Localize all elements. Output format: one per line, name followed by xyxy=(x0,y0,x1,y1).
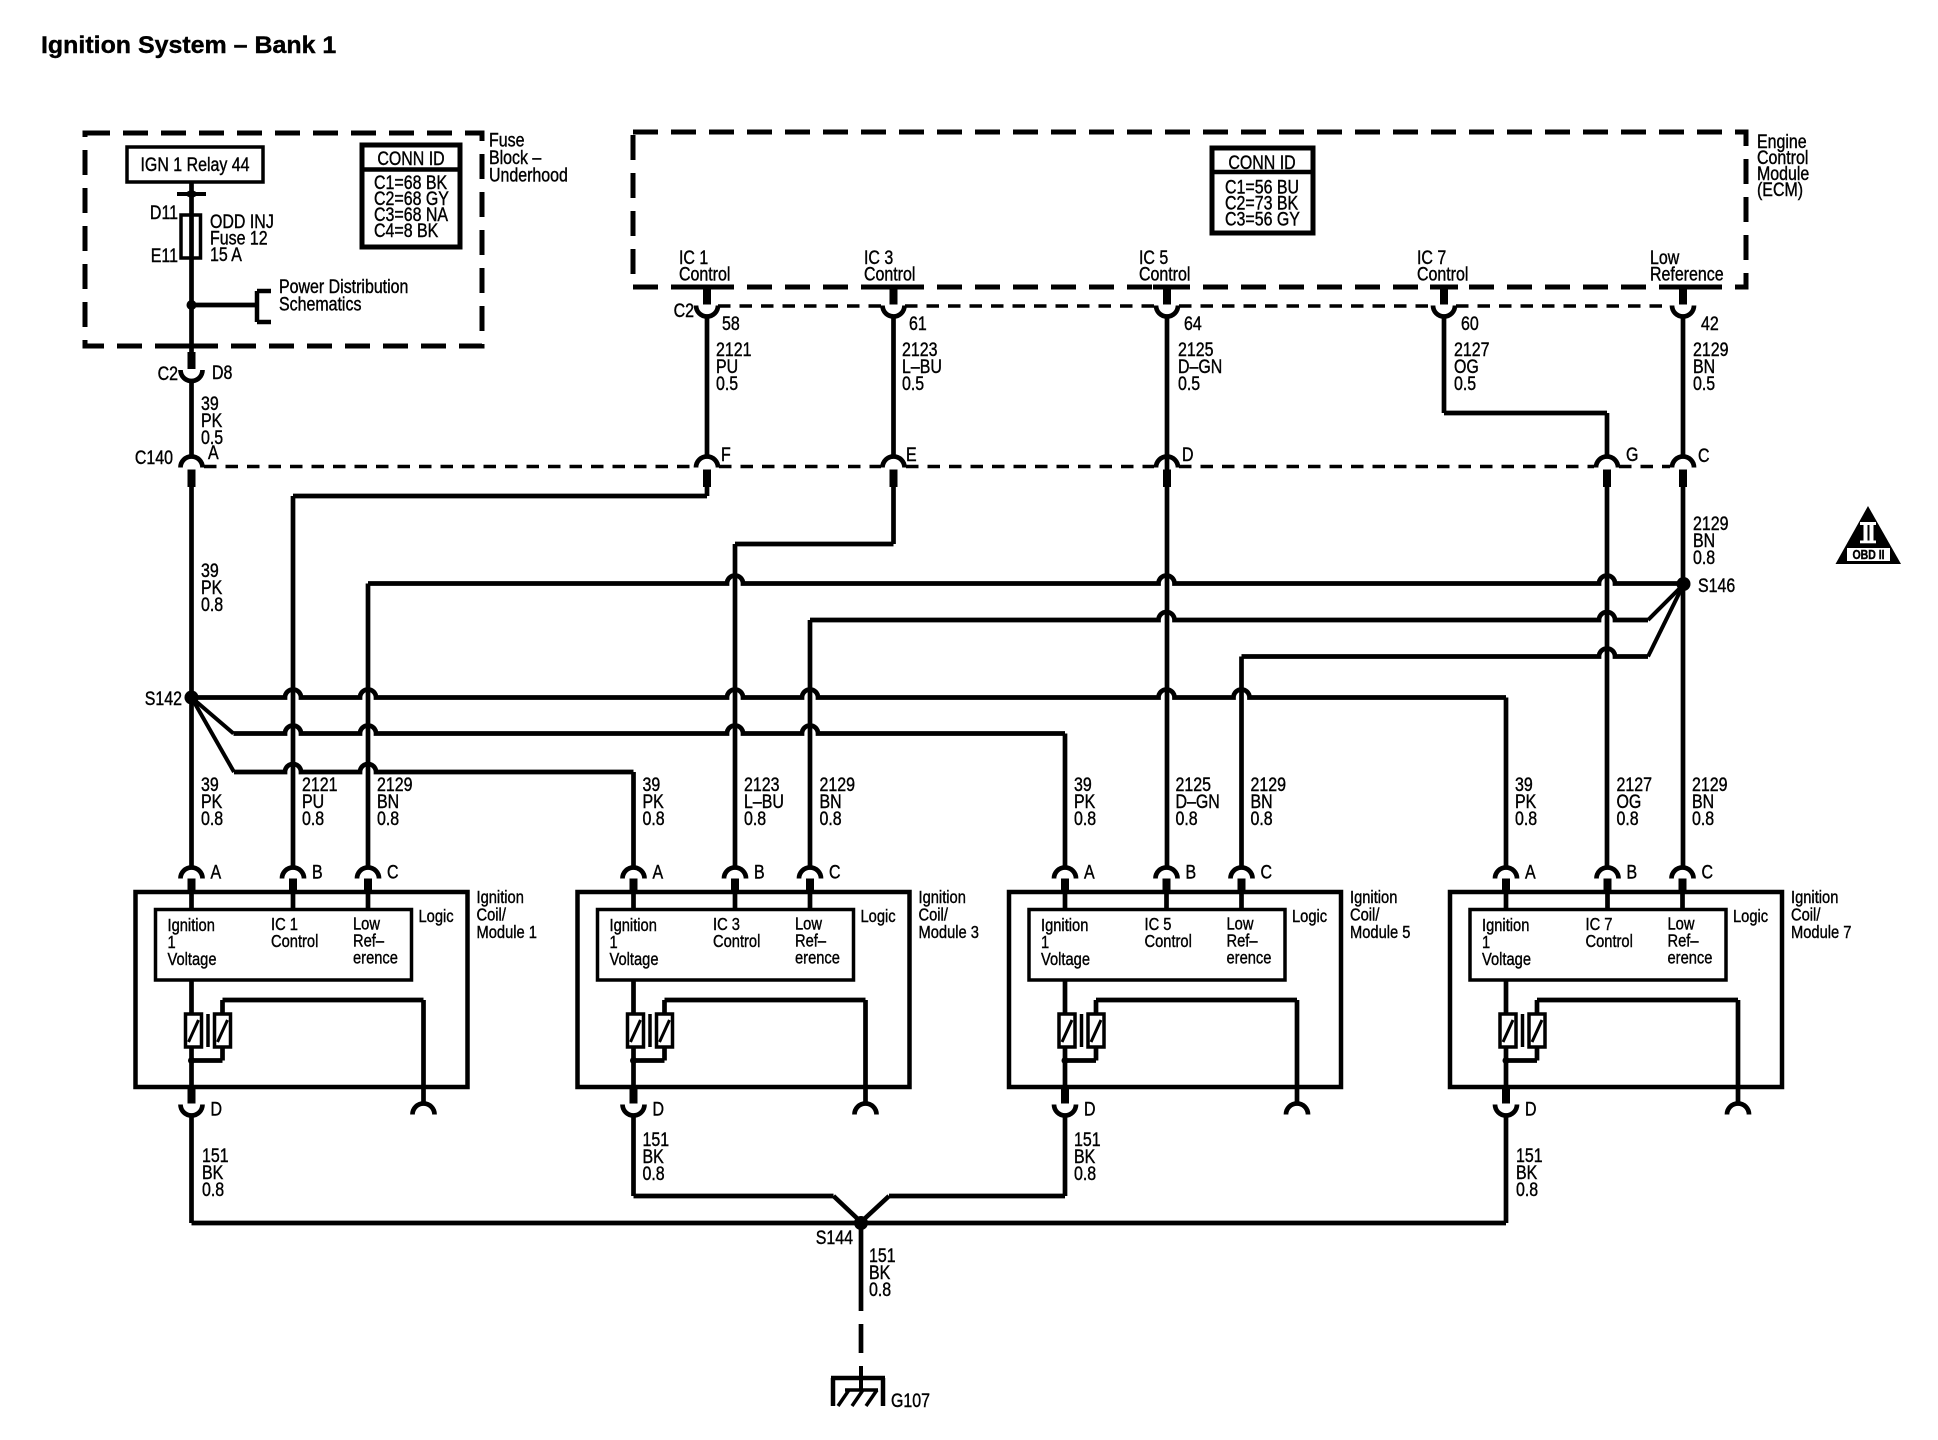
svg-text:0.8: 0.8 xyxy=(1074,808,1096,830)
svg-text:0.8: 0.8 xyxy=(869,1279,891,1301)
svg-text:C3=56 GY: C3=56 GY xyxy=(1225,208,1300,230)
svg-text:C: C xyxy=(829,861,841,883)
svg-text:A: A xyxy=(211,861,222,883)
svg-text:D: D xyxy=(653,1098,665,1120)
svg-text:Voltage: Voltage xyxy=(1041,950,1090,969)
svg-text:B: B xyxy=(1186,861,1197,883)
svg-text:Underhood: Underhood xyxy=(489,164,568,186)
svg-text:Reference: Reference xyxy=(1650,263,1724,285)
svg-text:Voltage: Voltage xyxy=(1482,950,1531,969)
svg-text:Ignition System – Bank 1: Ignition System – Bank 1 xyxy=(41,32,336,58)
svg-text:0.8: 0.8 xyxy=(1176,808,1198,830)
svg-text:C: C xyxy=(1261,861,1273,883)
svg-text:D8: D8 xyxy=(212,362,232,384)
svg-text:0.5: 0.5 xyxy=(1454,373,1476,395)
svg-text:0.5: 0.5 xyxy=(902,373,924,395)
svg-text:Control: Control xyxy=(864,263,915,285)
svg-text:0.8: 0.8 xyxy=(201,808,223,830)
svg-text:58: 58 xyxy=(722,313,740,335)
svg-text:Schematics: Schematics xyxy=(279,293,362,315)
svg-text:60: 60 xyxy=(1461,313,1479,335)
svg-text:CONN ID: CONN ID xyxy=(1228,152,1295,174)
svg-text:G: G xyxy=(1626,444,1638,466)
svg-text:Control: Control xyxy=(1417,263,1468,285)
svg-text:Control: Control xyxy=(271,932,318,951)
svg-text:Control: Control xyxy=(1145,932,1192,951)
svg-text:S144: S144 xyxy=(816,1227,853,1249)
svg-text:G107: G107 xyxy=(891,1390,930,1412)
svg-text:0.8: 0.8 xyxy=(202,1179,224,1201)
svg-text:0.8: 0.8 xyxy=(1617,808,1639,830)
svg-text:0.8: 0.8 xyxy=(744,808,766,830)
svg-text:E11: E11 xyxy=(151,245,178,267)
svg-text:A: A xyxy=(1084,861,1095,883)
svg-text:F: F xyxy=(721,444,731,466)
svg-text:C: C xyxy=(387,861,399,883)
svg-text:Logic: Logic xyxy=(419,907,454,926)
svg-text:Module 3: Module 3 xyxy=(919,923,979,942)
svg-text:B: B xyxy=(312,861,323,883)
svg-text:0.8: 0.8 xyxy=(643,1163,665,1185)
svg-text:CONN ID: CONN ID xyxy=(377,148,444,170)
svg-text:61: 61 xyxy=(909,313,927,335)
svg-text:C: C xyxy=(1698,445,1710,467)
svg-text:A: A xyxy=(653,861,664,883)
svg-text:Logic: Logic xyxy=(1733,907,1768,926)
svg-text:C140: C140 xyxy=(135,447,173,469)
svg-text:0.5: 0.5 xyxy=(1178,373,1200,395)
svg-text:S146: S146 xyxy=(1698,575,1735,597)
svg-text:Module 7: Module 7 xyxy=(1791,923,1851,942)
svg-text:D: D xyxy=(1525,1098,1537,1120)
svg-text:0.5: 0.5 xyxy=(1693,373,1715,395)
svg-text:D: D xyxy=(211,1098,223,1120)
svg-text:S142: S142 xyxy=(145,688,182,710)
svg-text:D: D xyxy=(1084,1098,1096,1120)
svg-text:0.8: 0.8 xyxy=(1693,547,1715,569)
svg-text:Voltage: Voltage xyxy=(610,950,659,969)
svg-text:15 A: 15 A xyxy=(210,244,242,266)
svg-text:B: B xyxy=(754,861,765,883)
svg-text:B: B xyxy=(1627,861,1638,883)
svg-text:erence: erence xyxy=(353,948,398,967)
svg-text:E: E xyxy=(906,444,917,466)
svg-text:(ECM): (ECM) xyxy=(1757,179,1803,201)
svg-text:A: A xyxy=(1525,861,1536,883)
svg-text:0.8: 0.8 xyxy=(820,808,842,830)
svg-text:C2: C2 xyxy=(674,300,694,322)
svg-text:42: 42 xyxy=(1701,313,1719,335)
svg-text:Control: Control xyxy=(679,263,730,285)
svg-text:D: D xyxy=(1182,444,1194,466)
svg-text:Module 5: Module 5 xyxy=(1350,923,1410,942)
svg-text:0.8: 0.8 xyxy=(1515,808,1537,830)
svg-text:0.8: 0.8 xyxy=(1516,1179,1538,1201)
svg-text:Voltage: Voltage xyxy=(168,950,217,969)
svg-text:C2: C2 xyxy=(158,363,178,385)
svg-text:Logic: Logic xyxy=(861,907,896,926)
svg-text:0.8: 0.8 xyxy=(643,808,665,830)
svg-text:erence: erence xyxy=(1227,948,1272,967)
svg-text:erence: erence xyxy=(795,948,840,967)
svg-text:erence: erence xyxy=(1668,948,1713,967)
svg-text:Module 1: Module 1 xyxy=(477,923,537,942)
svg-text:OBD II: OBD II xyxy=(1852,549,1884,562)
svg-text:D11: D11 xyxy=(150,202,178,224)
svg-text:0.5: 0.5 xyxy=(716,373,738,395)
svg-text:Control: Control xyxy=(1586,932,1633,951)
svg-text:64: 64 xyxy=(1184,313,1202,335)
svg-text:0.8: 0.8 xyxy=(1074,1163,1096,1185)
svg-text:C4=8 BK: C4=8 BK xyxy=(374,220,439,242)
svg-text:IGN 1 Relay 44: IGN 1 Relay 44 xyxy=(140,154,249,176)
svg-text:Control: Control xyxy=(713,932,760,951)
svg-text:0.8: 0.8 xyxy=(1692,808,1714,830)
svg-text:0.8: 0.8 xyxy=(1251,808,1273,830)
svg-text:Logic: Logic xyxy=(1292,907,1327,926)
svg-text:Control: Control xyxy=(1139,263,1190,285)
svg-text:0.8: 0.8 xyxy=(377,808,399,830)
svg-text:0.8: 0.8 xyxy=(302,808,324,830)
svg-text:C: C xyxy=(1702,861,1714,883)
svg-text:0.8: 0.8 xyxy=(201,594,223,616)
svg-text:A: A xyxy=(208,442,219,464)
